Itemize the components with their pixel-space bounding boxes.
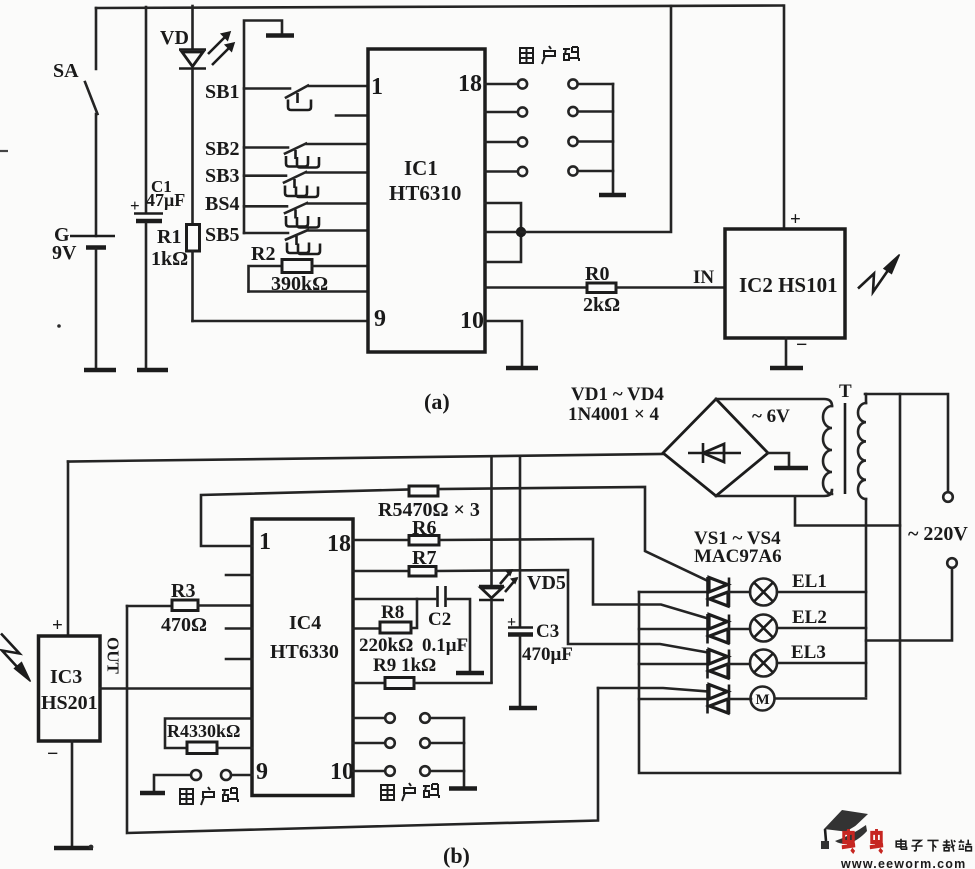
svg-text:10: 10 xyxy=(460,308,484,334)
svg-text:www.eeworm.com: www.eeworm.com xyxy=(840,857,966,869)
ground (battery) xyxy=(84,368,116,373)
svg-text:VD5: VD5 xyxy=(527,572,566,594)
svg-text:SB1: SB1 xyxy=(205,81,239,103)
wire right return xyxy=(899,394,902,773)
svg-text:HT6330: HT6330 xyxy=(270,641,339,663)
svg-text:R7: R7 xyxy=(412,547,436,569)
lamp EL1 xyxy=(750,571,866,606)
svg-text:1kΩ: 1kΩ xyxy=(151,248,188,270)
svg-text:10: 10 xyxy=(330,759,354,785)
antenna arrows (IC2) xyxy=(858,255,900,293)
stub pin2 IC1 xyxy=(336,114,368,117)
LED VD5 xyxy=(479,457,566,682)
wire VS4 gate feed xyxy=(598,688,708,692)
ground (IC2) xyxy=(770,366,803,371)
svg-text:R3: R3 xyxy=(171,580,195,602)
ground (C1) xyxy=(137,368,168,373)
ground (user code a) xyxy=(599,193,626,198)
svg-text:IC2 HS101: IC2 HS101 xyxy=(739,273,838,297)
svg-text:47μF: 47μF xyxy=(146,190,185,210)
svg-text:EL2: EL2 xyxy=(792,607,827,628)
svg-text:~ 220V: ~ 220V xyxy=(908,523,968,545)
wire secondary common xyxy=(795,497,900,526)
resistor R3 470 xyxy=(127,580,252,636)
svg-text:C2: C2 xyxy=(428,609,451,630)
svg-text:R1: R1 xyxy=(157,226,181,248)
user code (b) left circles xyxy=(154,770,252,791)
svg-text:9V: 9V xyxy=(52,242,77,264)
IC1 HT6310 xyxy=(368,49,485,352)
svg-text:HS201: HS201 xyxy=(41,692,98,714)
svg-text:R0: R0 xyxy=(585,263,609,285)
logo 电子下载站 xyxy=(896,839,906,849)
resistor R6 xyxy=(353,517,708,619)
svg-text:+: + xyxy=(507,614,516,631)
svg-text:1N4001 × 4: 1N4001 × 4 xyxy=(568,404,660,425)
terminal circle 220V lower xyxy=(947,558,957,568)
capacitor C3 470uF xyxy=(507,457,573,707)
triac VS2 xyxy=(639,614,750,644)
svg-text:R8: R8 xyxy=(381,602,404,623)
wire pin1 path + resistor R5 xyxy=(201,486,708,581)
triac VS1 xyxy=(639,577,750,607)
triac VS3 xyxy=(639,649,750,679)
ground (C2) xyxy=(456,671,484,676)
capacitor C1 xyxy=(130,7,185,368)
resistor R0 2k xyxy=(485,263,725,316)
switch SA xyxy=(53,8,98,236)
svg-text:0.1μF: 0.1μF xyxy=(422,635,468,656)
pushbutton SB3 xyxy=(205,165,368,197)
svg-text:SB5: SB5 xyxy=(205,224,239,246)
svg-text:~ 6V: ~ 6V xyxy=(752,406,790,427)
ground (user code b-left) xyxy=(140,791,165,796)
svg-text:SB2: SB2 xyxy=(205,138,239,160)
lamp EL3 xyxy=(750,642,866,677)
label 用户码 (a) xyxy=(520,46,579,64)
svg-text:IC3: IC3 xyxy=(50,666,82,688)
IC1 right stubs with junction xyxy=(485,6,671,262)
resistor R2 390k xyxy=(249,243,369,295)
wire OUT to IC4 xyxy=(100,687,252,690)
bridge rectifier VD1~VD4 xyxy=(568,384,768,496)
svg-text:EL1: EL1 xyxy=(792,571,827,592)
resistor R9 1k xyxy=(353,655,492,689)
svg-text:220kΩ: 220kΩ xyxy=(359,635,413,656)
svg-text:VD: VD xyxy=(160,27,189,49)
antenna arrows (IC3) xyxy=(1,634,31,682)
wire 220V top xyxy=(865,394,948,492)
logo cap xyxy=(824,810,868,832)
svg-text:−: − xyxy=(796,334,807,356)
resistor R1 xyxy=(151,225,200,322)
svg-text:M: M xyxy=(756,692,770,708)
svg-text:SB3: SB3 xyxy=(205,165,239,187)
terminal circle 220V upper xyxy=(943,492,953,502)
svg-text:R6: R6 xyxy=(412,517,436,539)
svg-text:470μF: 470μF xyxy=(522,644,573,665)
svg-text:IC4: IC4 xyxy=(289,612,321,634)
wire top bus (b) xyxy=(68,454,663,462)
svg-text:OUT: OUT xyxy=(104,637,123,675)
svg-text:BS4: BS4 xyxy=(205,193,239,215)
svg-text:(b): (b) xyxy=(443,843,470,868)
svg-text:SA: SA xyxy=(53,60,79,82)
user code (b) right circles xyxy=(353,713,464,786)
svg-text:R2: R2 xyxy=(251,243,275,265)
svg-text:(a): (a) xyxy=(424,389,450,414)
label VS1~VS4 MAC97A6 xyxy=(694,528,782,567)
svg-text:18: 18 xyxy=(458,71,482,97)
user code (a) rows xyxy=(485,79,613,193)
resistor R7 xyxy=(353,547,708,653)
svg-text:9: 9 xyxy=(256,759,268,785)
svg-text:−: − xyxy=(47,743,58,765)
svg-text:470Ω: 470Ω xyxy=(161,614,207,636)
LED VD xyxy=(160,6,234,224)
svg-text:MAC97A6: MAC97A6 xyxy=(694,546,782,567)
battery G 9V xyxy=(52,224,115,368)
svg-text:R9 1kΩ: R9 1kΩ xyxy=(373,655,436,676)
svg-text:2kΩ: 2kΩ xyxy=(583,294,620,316)
logo 虫虫 xyxy=(842,829,855,852)
IC2 HS101 xyxy=(725,6,845,367)
svg-text:IN: IN xyxy=(693,267,714,288)
ground (user code b-right) xyxy=(449,786,477,791)
resistor R4 330k with frame xyxy=(165,719,252,754)
pin10 ground xyxy=(485,321,538,368)
svg-text:390kΩ: 390kΩ xyxy=(271,273,328,295)
ground (IC3) xyxy=(54,846,93,851)
svg-text:C3: C3 xyxy=(536,621,559,642)
svg-text:18: 18 xyxy=(327,531,351,557)
IC3 HS201 xyxy=(39,462,123,847)
logo eeworm xyxy=(821,810,971,869)
wire triac bus and bottom return xyxy=(639,592,900,773)
svg-text:IC1: IC1 xyxy=(404,156,438,180)
wire 220V lower to lamp bus xyxy=(866,568,952,641)
svg-text:EL3: EL3 xyxy=(791,642,826,663)
svg-text:T: T xyxy=(839,381,852,402)
triac VS4 xyxy=(639,684,751,714)
svg-text:VD1 ~ VD4: VD1 ~ VD4 xyxy=(571,384,664,405)
svg-text:+: + xyxy=(52,615,63,636)
transformer T xyxy=(716,381,866,499)
label 用户码 (b-right) xyxy=(381,783,439,801)
svg-text:9: 9 xyxy=(374,306,386,332)
ground (bridge) xyxy=(768,453,808,468)
IC4 left stubs xyxy=(226,575,252,659)
lamp EL2 xyxy=(750,607,866,642)
wire top bus xyxy=(96,6,782,9)
pushbutton SB1 xyxy=(205,81,368,110)
svg-text:+: + xyxy=(130,196,140,215)
svg-text:1: 1 xyxy=(371,74,383,100)
svg-text:+: + xyxy=(790,209,801,230)
svg-text:1: 1 xyxy=(259,529,271,555)
wire R1 to pin9 xyxy=(193,320,369,323)
SB common bus and ground xyxy=(244,21,294,234)
pushbutton BS4 xyxy=(205,193,368,228)
ground (C3) xyxy=(509,706,537,711)
wire bottom bus (b) xyxy=(127,606,598,833)
speck dots xyxy=(89,845,94,850)
wire primary bottom / lamp bus xyxy=(865,499,868,696)
pushbutton SB5 xyxy=(205,224,368,254)
capacitor C2 with resistor R8 xyxy=(353,586,470,671)
IC4 HT6330 xyxy=(252,519,354,796)
svg-text:HT6310: HT6310 xyxy=(389,181,461,205)
pushbutton SB2 xyxy=(205,138,368,168)
motor M xyxy=(751,687,867,711)
label 用户码 (b-left) xyxy=(180,787,238,805)
svg-text:R4330kΩ: R4330kΩ xyxy=(167,721,240,741)
